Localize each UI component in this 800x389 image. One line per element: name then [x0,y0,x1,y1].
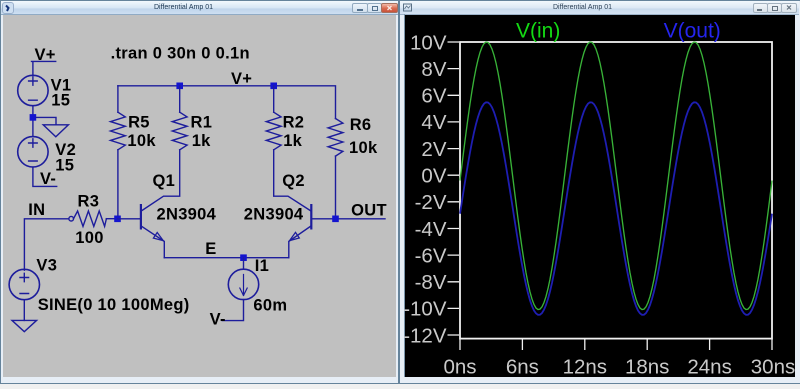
right window icon [402,2,413,13]
svg-text:60m: 60m [253,297,287,315]
left close button [381,3,398,13]
svg-text:V(out): V(out) [664,20,721,43]
right minimize button [753,3,768,13]
svg-text:V-: V- [210,311,226,329]
right window title bar [400,1,799,15]
svg-text:6ns: 6ns [506,355,539,378]
svg-text:-8V: -8V [415,271,447,294]
svg-text:SINE(0 10 100Meg): SINE(0 10 100Meg) [38,296,190,314]
svg-text:R6: R6 [350,116,372,134]
svg-text:V3: V3 [36,257,57,275]
svg-text:V+: V+ [231,70,252,88]
trace V(in) green sine [460,42,772,309]
resistor R5 [111,86,126,216]
left window title bar [1,1,398,15]
y axis labels [403,31,447,347]
svg-text:R5: R5 [128,114,150,132]
voltage source V2 [18,137,48,167]
left window client area (schematic canvas) [3,15,396,377]
trace V(out) blue sine [460,102,772,314]
svg-text:24ns: 24ns [687,355,731,378]
junction V1/V2/ground [30,114,37,121]
wire junction to Q1 base [118,218,140,220]
resistor R1 [172,86,187,150]
right window title text [499,4,666,11]
voltage source V3 [9,269,39,299]
left maximize button [367,3,382,13]
left minimize button [352,3,368,13]
node V- flag wire (left) [33,167,57,186]
svg-text:15: 15 [55,157,74,175]
wire Q2 base to OUT [312,218,385,220]
svg-text:-4V: -4V [415,218,447,241]
svg-text:-6V: -6V [415,244,447,267]
svg-text:R1: R1 [191,114,213,132]
svg-text:2N3904: 2N3904 [244,206,304,224]
svg-text:E: E [205,240,216,258]
wire IN to V3 [24,219,68,270]
svg-text:V-: V- [40,170,56,188]
svg-text:R3: R3 [78,193,100,211]
plot frame box [448,42,773,350]
junction E/I1 [240,254,247,261]
left window (schematic) frame [0,0,399,384]
inter-window border line [404,14,406,377]
current source I1 [228,258,258,300]
right window (waveform) frame [399,0,800,384]
wire V1 to V2 [32,106,34,137]
svg-text:4V: 4V [421,111,446,134]
svg-text:.tran 0 30n 0 0.1n: .tran 0 30n 0 0.1n [111,44,250,62]
transistor Q2 (mirrored) [274,150,313,258]
x axis labels [443,355,795,378]
svg-text:Q2: Q2 [282,172,305,190]
left window title text [100,4,267,11]
svg-text:15: 15 [51,91,70,109]
resistor R6 [328,119,343,216]
svg-text:6V: 6V [421,85,446,108]
svg-text:10k: 10k [127,132,156,150]
svg-text:10k: 10k [349,139,378,157]
right window client area (plot background) [405,15,795,377]
svg-text:12ns: 12ns [563,355,607,378]
ground symbol (top) [36,117,68,136]
svg-text:100: 100 [75,229,103,247]
svg-text:2N3904: 2N3904 [157,206,217,224]
svg-text:Q1: Q1 [153,172,176,190]
svg-text:1k: 1k [283,132,302,150]
x axis ticks [460,339,772,350]
svg-text:10V: 10V [410,31,447,54]
left window icon [2,2,14,14]
svg-text:30ns: 30ns [751,355,795,378]
junction rail/R1 [176,83,183,90]
V+ rail wire [118,86,336,119]
right maximize button [767,3,782,13]
svg-text:I1: I1 [255,257,269,275]
wire R3 to base junction [106,218,117,220]
voltage source V1 [18,75,48,105]
svg-text:1k: 1k [192,132,211,150]
wire V3 to ground [23,300,25,321]
svg-text:V(in): V(in) [516,20,560,43]
right close button [781,3,797,13]
ground symbol (bottom) [12,320,37,331]
node V- flag wire at I1 [222,300,243,321]
junction Q2 base/R6/OUT [332,216,339,223]
svg-text:V+: V+ [35,46,56,64]
svg-text:8V: 8V [421,58,446,81]
svg-text:-10V: -10V [403,298,447,321]
node E wire [164,257,288,259]
svg-text:2V: 2V [421,138,446,161]
svg-text:OUT: OUT [351,201,387,219]
open terminal circle at R3 left pin [69,216,74,221]
resistor R2 [266,86,281,150]
svg-text:R2: R2 [283,113,305,131]
svg-text:-12V: -12V [403,324,447,347]
y axis ticks [448,42,460,335]
transistor Q1 [140,150,180,258]
svg-text:IN: IN [28,201,45,219]
svg-text:0ns: 0ns [443,355,476,378]
junction R3/R5/Q1 base [114,216,121,223]
svg-text:18ns: 18ns [625,355,669,378]
svg-text:-2V: -2V [415,191,447,214]
resistor R3 [74,211,107,226]
node V+ flag stub wire [32,61,56,75]
junction rail/R2 [270,83,277,90]
svg-text:0V: 0V [421,165,446,188]
